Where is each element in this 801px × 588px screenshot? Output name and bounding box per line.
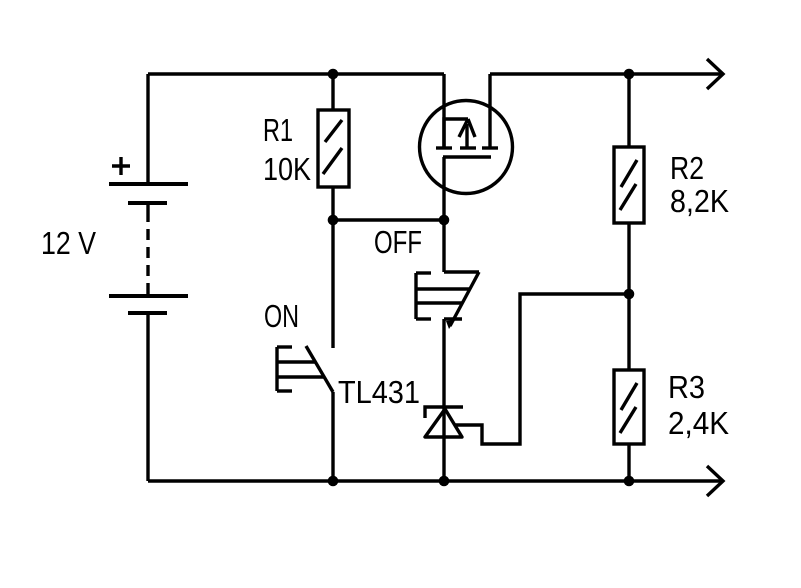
wire ON bottom lead: [331, 392, 334, 481]
TL431 D1 triangle: [425, 409, 462, 437]
pushbutton ON: [277, 346, 333, 392]
plus sign: [112, 157, 130, 175]
wire battery top lead: [146, 74, 149, 184]
Q1 gate lead: [442, 157, 445, 220]
wire R2 bottom lead: [627, 223, 630, 294]
node divider: [624, 289, 635, 300]
wire top rail left: [148, 72, 444, 75]
resistor R3: [614, 370, 644, 444]
Q1 bulk bracket: [444, 119, 468, 148]
Q1 gate bar: [443, 155, 491, 158]
node bottom TL431: [439, 476, 450, 487]
label 12 V: [43, 232, 96, 254]
Q1 channel bars: [436, 146, 452, 149]
transistor Q1 circle: [420, 101, 513, 194]
label 10K: [265, 158, 311, 181]
pushbutton OFF: [416, 272, 479, 329]
wire bottom rail: [148, 479, 722, 482]
wire gate node horizontal: [333, 218, 444, 221]
wire R1 top lead: [331, 74, 334, 110]
node gate right: [439, 215, 450, 226]
node bottom R3: [624, 476, 635, 487]
wire R1 bottom lead: [331, 187, 334, 220]
node R1 top: [328, 69, 339, 80]
wire OFF to TL431: [442, 319, 445, 481]
arrow bottom output: [707, 466, 723, 496]
wire R3 top lead: [627, 294, 630, 370]
Q1 drain lead: [488, 74, 491, 148]
battery dashed middle link: [146, 203, 149, 222]
label R2: [672, 157, 703, 179]
label ON: [265, 305, 297, 328]
label R3: [670, 376, 703, 399]
label 8,2K: [671, 190, 729, 216]
wire R2 top lead: [627, 74, 630, 147]
wire ON branch down: [331, 220, 334, 348]
TL431 D1 cathode bar: [425, 407, 463, 418]
wire OFF branch down: [442, 220, 445, 272]
battery BT1 plates: [109, 184, 188, 313]
Q1 substrate arrow: [465, 124, 468, 148]
node gate left: [328, 215, 339, 226]
label R1: [265, 119, 292, 141]
node R2 top: [624, 69, 635, 80]
resistor R1: [318, 110, 349, 187]
arrow top output: [707, 59, 723, 89]
wire TL431 reference tap: [455, 294, 629, 444]
wire R3 bottom lead: [627, 444, 630, 481]
label 2,4K: [670, 412, 729, 438]
label OFF: [375, 231, 421, 254]
wire battery bottom lead: [146, 313, 149, 481]
label TL431: [339, 381, 419, 404]
wire top rail right: [490, 72, 722, 75]
resistor R2: [614, 147, 644, 223]
node bottom ON: [328, 476, 339, 487]
Q1 source lead: [442, 74, 445, 148]
